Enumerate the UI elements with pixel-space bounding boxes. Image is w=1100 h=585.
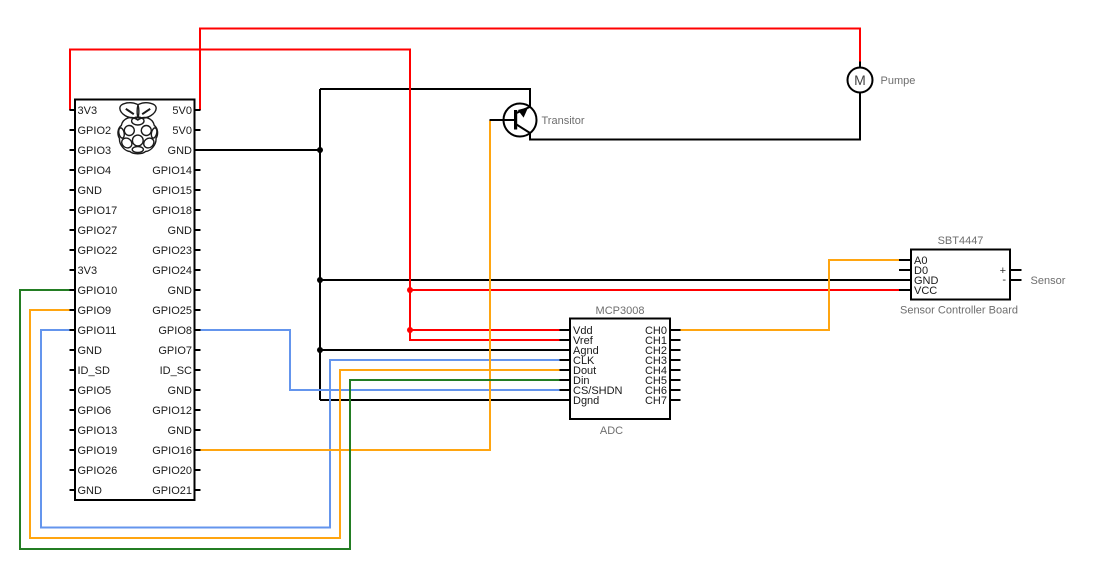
svg-text:GND: GND	[168, 425, 193, 437]
svg-text:MCP3008: MCP3008	[596, 305, 645, 317]
svg-text:GPIO14: GPIO14	[152, 165, 192, 177]
svg-text:GPIO18: GPIO18	[152, 205, 192, 217]
svg-text:ID_SD: ID_SD	[78, 365, 110, 377]
svg-text:CH7: CH7	[645, 395, 667, 407]
svg-text:GPIO12: GPIO12	[152, 405, 192, 417]
svg-text:Pumpe: Pumpe	[881, 75, 916, 87]
svg-text:VCC: VCC	[914, 285, 937, 297]
svg-text:ADC: ADC	[600, 425, 623, 437]
svg-text:GPIO2: GPIO2	[78, 125, 112, 137]
svg-text:GPIO25: GPIO25	[152, 305, 192, 317]
svg-text:GPIO5: GPIO5	[78, 385, 112, 397]
svg-text:5V0: 5V0	[172, 125, 192, 137]
svg-text:GPIO7: GPIO7	[158, 345, 192, 357]
svg-text:GND: GND	[168, 285, 193, 297]
svg-text:GPIO19: GPIO19	[78, 445, 118, 457]
svg-text:GPIO23: GPIO23	[152, 245, 192, 257]
svg-text:SBT4447: SBT4447	[938, 235, 984, 247]
svg-text:GPIO11: GPIO11	[78, 325, 117, 337]
svg-text:GND: GND	[168, 145, 193, 157]
svg-text:GPIO27: GPIO27	[78, 225, 118, 237]
svg-text:M: M	[854, 72, 866, 88]
svg-text:GPIO9: GPIO9	[78, 305, 112, 317]
svg-text:-: -	[1002, 274, 1006, 286]
svg-text:GPIO8: GPIO8	[158, 325, 192, 337]
svg-text:GPIO4: GPIO4	[78, 165, 112, 177]
svg-text:Sensor: Sensor	[1031, 275, 1066, 287]
svg-text:GND: GND	[78, 345, 103, 357]
svg-text:GPIO17: GPIO17	[78, 205, 118, 217]
svg-text:GPIO13: GPIO13	[78, 425, 118, 437]
svg-text:Dgnd: Dgnd	[573, 395, 599, 407]
svg-text:GND: GND	[78, 185, 103, 197]
svg-text:GPIO21: GPIO21	[152, 485, 192, 497]
svg-text:Transitor: Transitor	[542, 115, 585, 127]
svg-text:5V0: 5V0	[172, 105, 192, 117]
svg-text:GPIO22: GPIO22	[78, 245, 118, 257]
svg-text:GND: GND	[78, 485, 103, 497]
svg-text:GPIO10: GPIO10	[78, 285, 118, 297]
svg-text:GPIO15: GPIO15	[152, 185, 192, 197]
svg-text:Sensor Controller Board: Sensor Controller Board	[900, 305, 1018, 317]
svg-text:GPIO24: GPIO24	[152, 265, 192, 277]
svg-text:GPIO26: GPIO26	[78, 465, 118, 477]
svg-text:GPIO16: GPIO16	[152, 445, 192, 457]
svg-text:GND: GND	[168, 225, 193, 237]
svg-text:GPIO3: GPIO3	[78, 145, 112, 157]
svg-text:ID_SC: ID_SC	[160, 365, 192, 377]
svg-text:GND: GND	[168, 385, 193, 397]
svg-text:3V3: 3V3	[78, 105, 98, 117]
svg-text:GPIO20: GPIO20	[152, 465, 192, 477]
svg-text:3V3: 3V3	[78, 265, 98, 277]
svg-text:GPIO6: GPIO6	[78, 405, 112, 417]
